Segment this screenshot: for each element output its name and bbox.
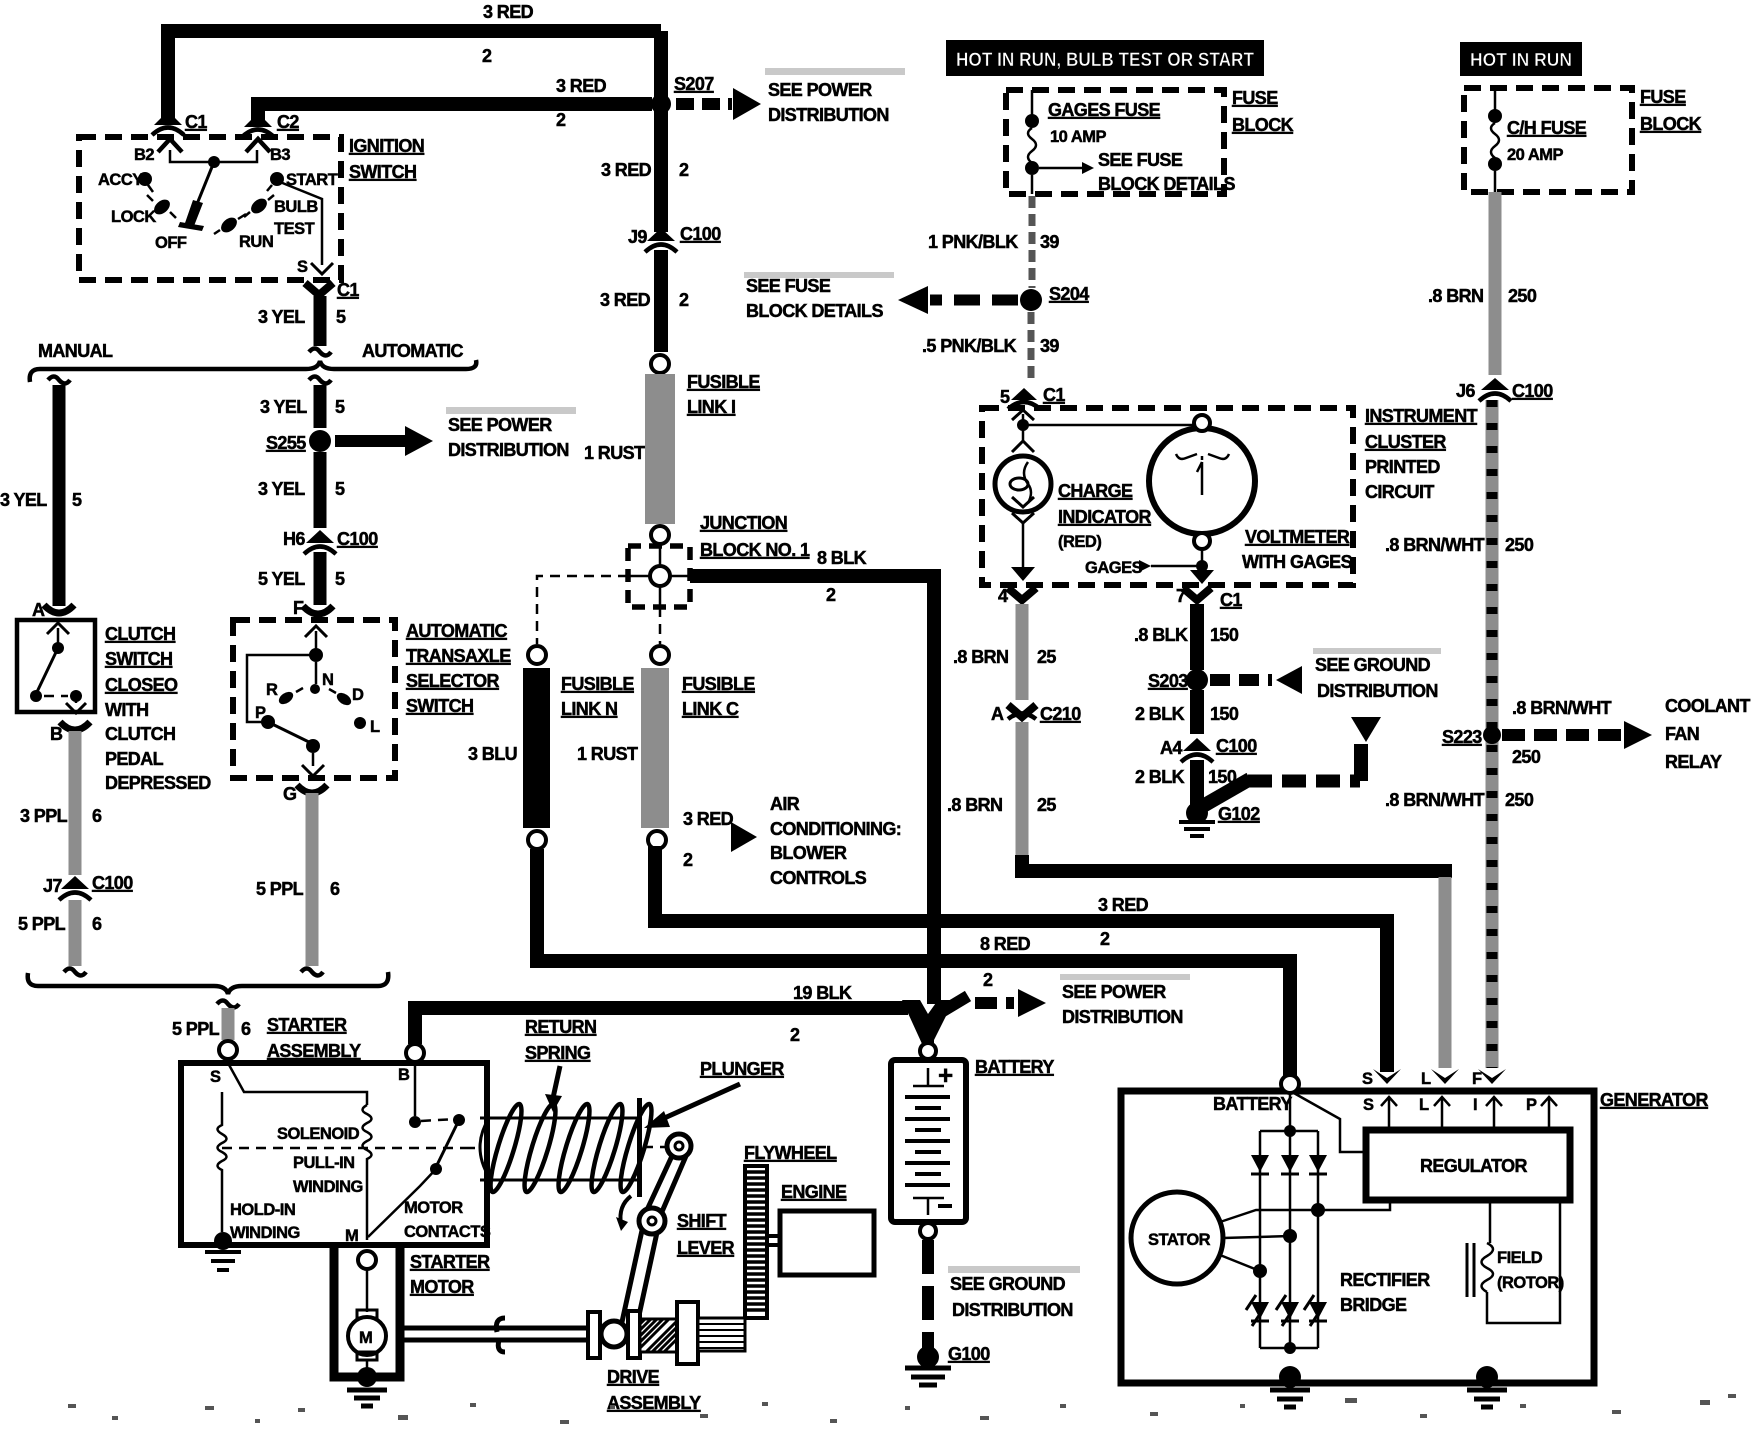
svg-text:SEE GROUND: SEE GROUND <box>950 1274 1066 1294</box>
centerline dashes <box>465 1147 667 1148</box>
shift lever <box>667 1134 691 1158</box>
svg-text:10 AMP: 10 AMP <box>1050 128 1106 146</box>
svg-text:2: 2 <box>1100 929 1110 949</box>
svg-text:L: L <box>1419 1096 1429 1114</box>
svg-text:BULB: BULB <box>274 198 318 216</box>
connector C1 below ignition <box>305 283 333 295</box>
battery feed arrow <box>902 1000 954 1046</box>
svg-text:1 PNK/BLK: 1 PNK/BLK <box>928 232 1018 252</box>
svg-text:DISTRIBUTION: DISTRIBUTION <box>1317 681 1438 701</box>
wire 3 PPL gray <box>69 731 82 875</box>
node circle above link N <box>528 646 546 664</box>
svg-text:HOT IN RUN: HOT IN RUN <box>1470 50 1572 70</box>
svg-text:2: 2 <box>482 46 492 66</box>
arrow coolant fan relay <box>1502 729 1625 741</box>
brace manual/automatic <box>30 360 477 382</box>
svg-text:(RED): (RED) <box>1058 533 1101 551</box>
svg-text:5: 5 <box>72 490 82 510</box>
svg-text:P: P <box>1526 1096 1537 1114</box>
charge indicator branch <box>1012 410 1034 420</box>
splice S255 <box>309 430 331 452</box>
fuse block dashed box <box>1464 88 1632 192</box>
battery top terminal <box>920 1043 936 1059</box>
scan noise specks bottom <box>68 1394 1736 1424</box>
motor enclosure U <box>334 1245 400 1377</box>
svg-text:SWITCH: SWITCH <box>105 649 172 669</box>
svg-text:.8 BRN: .8 BRN <box>947 795 1002 815</box>
svg-text:2: 2 <box>983 970 993 990</box>
svg-text:PEDAL: PEDAL <box>105 749 164 769</box>
wire left branch 3 YEL <box>48 377 70 384</box>
svg-text:6: 6 <box>92 806 102 826</box>
svg-text:25: 25 <box>1037 647 1056 667</box>
starter box <box>181 1063 487 1245</box>
svg-text:AUTOMATIC: AUTOMATIC <box>406 621 508 641</box>
bus brn to generator L <box>1022 855 1452 871</box>
svg-text:CHARGE: CHARGE <box>1058 481 1133 501</box>
svg-text:3 RED: 3 RED <box>1098 895 1149 915</box>
drive assembly shaft <box>401 1328 588 1340</box>
motor symbol <box>366 1269 369 1312</box>
svg-text:(ROTOR): (ROTOR) <box>1497 1274 1564 1292</box>
wire dashed to link C <box>659 607 662 644</box>
svg-text:FUSE: FUSE <box>1640 87 1686 107</box>
svg-text:5 PPL: 5 PPL <box>18 914 66 934</box>
wire arrow to see power distribution <box>676 98 732 110</box>
svg-text:RECTIFIER: RECTIFIER <box>1340 1270 1430 1290</box>
svg-text:5: 5 <box>335 397 345 417</box>
svg-text:WITH: WITH <box>105 700 149 720</box>
clutch switch box <box>17 620 95 712</box>
regulator <box>1366 1130 1570 1200</box>
svg-text:DISTRIBUTION: DISTRIBUTION <box>1062 1007 1183 1027</box>
plunger body <box>480 1118 489 1177</box>
svg-text:C/H FUSE: C/H FUSE <box>1507 118 1587 138</box>
svg-text:C100: C100 <box>680 224 721 244</box>
contact START <box>270 172 284 186</box>
svg-text:FIELD: FIELD <box>1497 1249 1543 1267</box>
svg-text:HOT IN RUN, BULB TEST OR START: HOT IN RUN, BULB TEST OR START <box>956 50 1254 71</box>
hold-in winding coil <box>218 1092 227 1232</box>
svg-text:BLOCK: BLOCK <box>1640 114 1702 134</box>
svg-text:.8 BRN/WHT: .8 BRN/WHT <box>1385 790 1485 810</box>
svg-text:D: D <box>352 686 364 704</box>
svg-text:I: I <box>1473 1096 1477 1114</box>
junction dot wiper pivot <box>208 156 220 168</box>
diodes top <box>1251 1155 1269 1172</box>
svg-text:BLOWER: BLOWER <box>770 843 847 863</box>
svg-text:FUSE: FUSE <box>1232 88 1278 108</box>
svg-text:M: M <box>359 1329 372 1347</box>
svg-text:S207: S207 <box>674 74 714 94</box>
SECTION: center vertical S207 fusible link I junction block <box>0 0 1 1</box>
instrument cluster dashed box <box>982 408 1353 585</box>
svg-text:LINK I: LINK I <box>687 397 735 417</box>
svg-text:BLOCK DETAILS: BLOCK DETAILS <box>746 301 883 321</box>
wire .8 BRN/WHT twisted down to S223 <box>1486 400 1499 1068</box>
svg-text:CLOSEO: CLOSEO <box>105 675 178 695</box>
SECTION: generator <box>1121 1060 1709 1407</box>
SECTION: C/H fuse block right <box>1385 42 1750 1068</box>
svg-text:.8 BRN: .8 BRN <box>953 647 1008 667</box>
svg-text:DISTRIBUTION: DISTRIBUTION <box>952 1300 1073 1320</box>
svg-text:C1: C1 <box>337 280 359 300</box>
battery bottom terminal <box>920 1223 936 1239</box>
wire dashed to link N <box>537 576 628 644</box>
svg-text:2: 2 <box>790 1025 800 1045</box>
svg-text:.5 PNK/BLK: .5 PNK/BLK <box>922 336 1017 356</box>
svg-text:J9: J9 <box>628 227 647 247</box>
rectifier ground <box>1279 1366 1301 1388</box>
svg-text:3 YEL: 3 YEL <box>258 307 305 327</box>
svg-text:250: 250 <box>1505 535 1534 555</box>
svg-text:3 RED: 3 RED <box>483 2 534 22</box>
banner HOT IN RUN BULB TEST OR START <box>946 40 1264 76</box>
ground G102 <box>1186 802 1208 824</box>
solenoid dashed frame line <box>222 1147 465 1150</box>
svg-text:3 RED: 3 RED <box>601 160 652 180</box>
svg-text:5: 5 <box>335 569 345 589</box>
connector C2 ignition <box>244 113 272 127</box>
wire 3 YEL below S255 <box>314 452 327 528</box>
svg-text:150: 150 <box>1210 704 1239 724</box>
svg-text:SELECTOR: SELECTOR <box>406 671 499 691</box>
svg-text:BLOCK NO. 1: BLOCK NO. 1 <box>700 540 810 560</box>
wire arrow see power distribution <box>335 435 405 447</box>
svg-text:HOLD-IN: HOLD-IN <box>230 1201 295 1219</box>
svg-text:STATOR: STATOR <box>1148 1231 1211 1249</box>
wire 19 BLK bus <box>415 1008 908 1044</box>
svg-text:CLUSTER: CLUSTER <box>1365 432 1446 452</box>
svg-text:SEE FUSE: SEE FUSE <box>1098 150 1183 170</box>
wire S255 stub <box>309 377 331 384</box>
svg-text:S203: S203 <box>1148 671 1188 691</box>
svg-text:8 RED: 8 RED <box>980 934 1031 954</box>
svg-text:S: S <box>210 1068 221 1086</box>
svg-text:1 RUST: 1 RUST <box>577 744 638 764</box>
svg-text:SEE POWER: SEE POWER <box>768 80 872 100</box>
svg-text:TRANSAXLE: TRANSAXLE <box>406 646 511 666</box>
svg-text:PULL-IN: PULL-IN <box>293 1154 355 1172</box>
svg-text:CLUTCH: CLUTCH <box>105 724 175 744</box>
svg-text:25: 25 <box>1037 795 1056 815</box>
svg-text:M: M <box>345 1227 358 1245</box>
svg-text:2: 2 <box>679 160 689 180</box>
fusible link I <box>645 374 675 524</box>
svg-text:AUTOMATIC: AUTOMATIC <box>362 341 464 361</box>
svg-text:WITH GAGES: WITH GAGES <box>1242 552 1353 572</box>
svg-text:8 BLK: 8 BLK <box>817 548 867 568</box>
svg-text:INDICATOR: INDICATOR <box>1058 507 1152 527</box>
svg-text:6: 6 <box>330 879 340 899</box>
svg-text:F: F <box>1472 1070 1482 1088</box>
svg-text:3 YEL: 3 YEL <box>258 479 305 499</box>
node circle below link C <box>648 831 666 849</box>
wire .5 PNK/BLK dotted <box>1028 312 1035 382</box>
selector interior <box>305 626 327 637</box>
motor contacts <box>414 1063 417 1116</box>
svg-text:FAN: FAN <box>1665 724 1699 744</box>
junction block no 1 <box>628 546 690 607</box>
svg-text:BLOCK: BLOCK <box>1232 115 1294 135</box>
wire to G100 dashed <box>922 1240 934 1350</box>
svg-text:A: A <box>991 704 1004 724</box>
svg-text:250: 250 <box>1512 747 1541 767</box>
rectifier bridge <box>1260 1131 1318 1348</box>
svg-text:J6: J6 <box>1456 381 1475 401</box>
wire diagonal to ground bus <box>1203 779 1250 806</box>
svg-text:TEST: TEST <box>274 220 315 238</box>
charge indicator bulb <box>995 456 1051 512</box>
svg-text:AIR: AIR <box>770 794 800 814</box>
wire .8 BRN speckled lower <box>1016 722 1029 858</box>
svg-text:39: 39 <box>1040 232 1059 252</box>
svg-text:S223: S223 <box>1442 727 1482 747</box>
svg-text:.8 BRN/WHT: .8 BRN/WHT <box>1512 698 1612 718</box>
svg-text:CLUTCH: CLUTCH <box>105 624 175 644</box>
svg-text:ACCY: ACCY <box>98 171 143 189</box>
wire 5 PPL gray right <box>306 793 319 966</box>
svg-text:250: 250 <box>1505 790 1534 810</box>
svg-text:SEE FUSE: SEE FUSE <box>746 276 831 296</box>
svg-text:DEPRESSED: DEPRESSED <box>105 773 211 793</box>
svg-text:5: 5 <box>1000 387 1010 407</box>
svg-text:STARTER: STARTER <box>267 1015 347 1035</box>
svg-text:C210: C210 <box>1040 704 1081 724</box>
svg-text:CONDITIONING:: CONDITIONING: <box>770 819 901 839</box>
hold-in ground <box>214 1232 232 1250</box>
svg-text:OFF: OFF <box>155 234 187 252</box>
wire 5 PPL gray <box>69 900 82 966</box>
svg-text:MANUAL: MANUAL <box>38 341 113 361</box>
fusible link C <box>641 668 669 828</box>
ignition switch box <box>79 137 341 280</box>
svg-text:A4: A4 <box>1160 738 1182 758</box>
SECTION: starter assembly <box>181 1015 491 1406</box>
svg-text:VOLTMETER: VOLTMETER <box>1245 527 1350 547</box>
svg-text:6: 6 <box>92 914 102 934</box>
node circle below link N <box>528 831 546 849</box>
splice S203 <box>1186 669 1208 691</box>
SECTION: instrument cluster <box>982 406 1478 610</box>
svg-text:LOCK: LOCK <box>111 208 156 226</box>
svg-text:N: N <box>322 671 333 689</box>
svg-text:4: 4 <box>998 586 1008 606</box>
svg-text:L: L <box>370 718 380 736</box>
svg-text:3 RED: 3 RED <box>683 809 734 829</box>
SECTION: buses <box>415 604 1452 1078</box>
svg-text:L: L <box>1421 1070 1431 1088</box>
splined shaft <box>698 1318 745 1351</box>
arrow to spring <box>553 1066 560 1098</box>
svg-text:MOTOR: MOTOR <box>410 1277 474 1297</box>
wire START to S <box>280 182 322 265</box>
gages fuse symbol <box>1031 90 1034 116</box>
arrowhead air conditioning <box>731 822 757 852</box>
svg-text:LINK N: LINK N <box>561 699 617 719</box>
wiper blade to OFF <box>197 162 214 204</box>
svg-text:SEE POWER: SEE POWER <box>448 415 552 435</box>
field ground <box>1476 1366 1498 1388</box>
voltmeter <box>1149 428 1255 534</box>
contact RUN <box>218 215 240 236</box>
svg-text:SOLENOID: SOLENOID <box>277 1125 360 1143</box>
svg-text:ASSEMBLY: ASSEMBLY <box>267 1041 361 1061</box>
svg-text:S: S <box>1363 1096 1374 1114</box>
svg-text:5: 5 <box>335 479 345 499</box>
svg-text:PLUNGER: PLUNGER <box>700 1059 784 1079</box>
svg-text:S: S <box>297 258 308 276</box>
M terminal <box>358 1251 376 1269</box>
wire 3 RED top bus <box>168 31 661 120</box>
svg-text:.8 BLK: .8 BLK <box>1134 625 1188 645</box>
svg-text:1 RUST: 1 RUST <box>584 443 645 463</box>
node circle below fusible link I <box>651 526 669 544</box>
svg-text:CONTROLS: CONTROLS <box>770 868 867 888</box>
hatched spool <box>640 1319 677 1352</box>
svg-text:2: 2 <box>679 290 689 310</box>
svg-text:C100: C100 <box>1512 381 1553 401</box>
banner HOT IN RUN <box>1460 42 1582 76</box>
svg-text:PRINTED: PRINTED <box>1365 457 1440 477</box>
SECTION: manual/automatic branches <box>0 341 576 1059</box>
svg-text:C100: C100 <box>337 529 378 549</box>
wire B2-B3 bus <box>170 150 257 162</box>
svg-text:C1: C1 <box>185 112 207 132</box>
arrow left see fuse block details <box>930 295 1018 306</box>
svg-text:SWITCH: SWITCH <box>406 696 473 716</box>
terminal B2 arrow <box>158 139 182 152</box>
svg-text:.8 BRN/WHT: .8 BRN/WHT <box>1385 535 1485 555</box>
svg-text:2 BLK: 2 BLK <box>1135 767 1185 787</box>
battery box <box>891 1060 966 1222</box>
svg-text:GAGES FUSE: GAGES FUSE <box>1048 100 1161 120</box>
svg-text:FUSIBLE: FUSIBLE <box>682 674 755 694</box>
spring coils <box>485 1102 657 1195</box>
svg-text:5: 5 <box>336 307 346 327</box>
SECTION: ignition switch <box>79 136 424 356</box>
splice S204 <box>1020 289 1042 311</box>
svg-text:STARTER: STARTER <box>410 1252 490 1272</box>
SECTION: top-left wiring <box>152 2 934 1004</box>
svg-text:COOLANT: COOLANT <box>1665 696 1750 716</box>
svg-text:BRIDGE: BRIDGE <box>1340 1295 1407 1315</box>
svg-text:REGULATOR: REGULATOR <box>1420 1156 1528 1176</box>
svg-text:SHIFT: SHIFT <box>677 1211 727 1231</box>
svg-text:JUNCTION: JUNCTION <box>700 513 787 533</box>
fusible link N <box>523 668 550 828</box>
wire 5 PPL to starter <box>217 1001 239 1008</box>
pull-in winding coil <box>363 1105 372 1240</box>
svg-text:S: S <box>1362 1070 1373 1088</box>
svg-text:19 BLK: 19 BLK <box>793 983 852 1003</box>
svg-text:MOTOR: MOTOR <box>404 1199 463 1217</box>
svg-text:RETURN: RETURN <box>525 1017 596 1037</box>
C/H fuse symbol <box>1494 88 1497 110</box>
svg-text:S255: S255 <box>266 433 306 453</box>
see fuse block details arrow <box>1039 167 1082 170</box>
B terminal circle <box>406 1044 424 1062</box>
svg-text:LEVER: LEVER <box>677 1238 735 1258</box>
svg-text:ENGINE: ENGINE <box>781 1182 847 1202</box>
wire 3 RED bus <box>655 846 1387 1068</box>
ground G100 <box>917 1346 939 1368</box>
svg-text:CONTACTS: CONTACTS <box>404 1223 491 1241</box>
svg-text:G102: G102 <box>1218 804 1260 824</box>
svg-text:3 PPL: 3 PPL <box>20 806 68 826</box>
svg-text:2: 2 <box>683 850 693 870</box>
wire 3 RED to fusible link <box>654 250 668 352</box>
svg-text:SEE GROUND: SEE GROUND <box>1315 655 1431 675</box>
wire 8 BLK from junction block <box>690 576 934 1004</box>
svg-text:DRIVE: DRIVE <box>607 1367 660 1387</box>
SECTION: battery <box>891 1043 1080 1385</box>
svg-text:3 YEL: 3 YEL <box>260 397 307 417</box>
svg-text:5 PPL: 5 PPL <box>172 1019 220 1039</box>
contact ACCY <box>138 172 152 186</box>
svg-text:ASSEMBLY: ASSEMBLY <box>607 1393 701 1413</box>
connector C1 ignition <box>154 111 182 125</box>
svg-text:J7: J7 <box>43 876 62 896</box>
svg-text:BATTERY: BATTERY <box>1213 1094 1292 1114</box>
svg-text:RUN: RUN <box>239 233 273 251</box>
svg-text:WINDING: WINDING <box>293 1178 363 1196</box>
wire 2 BLK <box>1190 690 1204 734</box>
S lead <box>228 1063 367 1105</box>
svg-text:GENERATOR: GENERATOR <box>1600 1090 1709 1110</box>
svg-text:SWITCH: SWITCH <box>349 162 416 182</box>
svg-text:G: G <box>283 784 296 804</box>
svg-text:WINDING: WINDING <box>230 1224 300 1242</box>
svg-text:FUSIBLE: FUSIBLE <box>687 372 760 392</box>
svg-text:3 RED: 3 RED <box>556 76 607 96</box>
svg-text:2 BLK: 2 BLK <box>1135 704 1185 724</box>
zener diodes bottom <box>1251 1302 1269 1319</box>
wire 3 RED second bus <box>258 104 652 122</box>
wire .8 BRN speckled from connector 4 <box>1016 604 1029 700</box>
battery terminal <box>1281 1075 1299 1093</box>
svg-text:6: 6 <box>241 1019 251 1039</box>
wire 8 RED bus <box>537 849 1290 1078</box>
svg-text:BLOCK DETAILS: BLOCK DETAILS <box>1098 174 1235 194</box>
svg-text:SEE POWER: SEE POWER <box>1062 982 1166 1002</box>
svg-text:C100: C100 <box>92 873 133 893</box>
svg-text:3 RED: 3 RED <box>600 290 651 310</box>
splice S223 <box>1483 726 1501 744</box>
battery wire into regulator <box>1292 1092 1366 1152</box>
svg-text:GAGES: GAGES <box>1085 559 1143 577</box>
selector switch box <box>233 620 395 778</box>
svg-text:39: 39 <box>1040 336 1059 356</box>
svg-text:150: 150 <box>1210 625 1239 645</box>
SECTION: ground chain S203 <box>1134 604 1441 836</box>
wire 2 BLK lower <box>1190 760 1204 805</box>
wire .8 BLK <box>1190 604 1204 670</box>
svg-text:DISTRIBUTION: DISTRIBUTION <box>768 105 889 125</box>
field rotor <box>1489 1200 1492 1243</box>
generator box <box>1121 1091 1594 1383</box>
svg-text:SPRING: SPRING <box>525 1043 590 1063</box>
svg-text:B3: B3 <box>270 146 290 164</box>
svg-text:C1: C1 <box>1043 385 1065 405</box>
svg-text:BATTERY: BATTERY <box>975 1057 1054 1077</box>
svg-text:RELAY: RELAY <box>1665 752 1722 772</box>
arrow see ground distribution <box>1210 674 1272 686</box>
battery cells <box>913 1068 944 1086</box>
wire 5 YEL <box>314 552 327 605</box>
svg-text:R: R <box>266 681 278 699</box>
svg-text:B: B <box>398 1066 410 1084</box>
